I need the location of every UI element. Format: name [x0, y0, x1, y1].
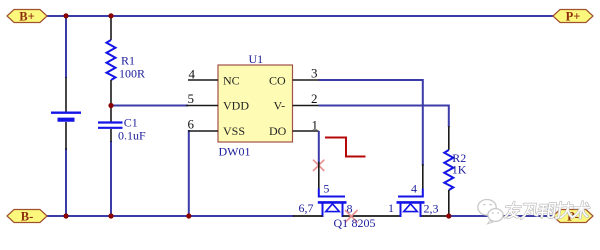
- wire B- rail to Q1 pin 6,7 black segment: [293, 215, 323, 217]
- pin 5 VDD: [186, 91, 249, 113]
- pin 6 VSS: [188, 117, 246, 139]
- svg-text:NC: NC: [223, 73, 240, 87]
- port B+: [7, 10, 47, 24]
- label Q1: [334, 216, 349, 230]
- svg-text:U1: U1: [249, 52, 264, 66]
- wire between Q1 FETs black segment: [343, 215, 401, 217]
- wire bottom rail B- segment: [46, 215, 294, 217]
- svg-text:DO: DO: [269, 124, 287, 138]
- wire DO to Q1 left gate: [318, 131, 320, 164]
- wire bottom rail P- segment: [449, 215, 554, 217]
- svg-text:VSS: VSS: [223, 124, 245, 138]
- label R2: [452, 151, 466, 165]
- svg-text:R1: R1: [121, 53, 135, 67]
- port B-: [7, 210, 47, 224]
- wire Q1 pin 2,3 to node black segment: [421, 215, 449, 217]
- svg-text:Q1: Q1: [334, 216, 349, 230]
- svg-text:VDD: VDD: [223, 99, 249, 113]
- junction rail C1 node: [108, 213, 113, 218]
- label 0.1uF: [118, 129, 146, 143]
- svg-text:DW01: DW01: [219, 144, 251, 158]
- label 8205: [352, 216, 376, 230]
- svg-text:5: 5: [323, 182, 329, 196]
- transistor Q1 left gate pin: [318, 162, 320, 189]
- wire V- to R2: [319, 106, 449, 128]
- pin number 8 Q1: [347, 201, 353, 215]
- capacitor C1: [98, 106, 123, 142]
- svg-text:5: 5: [188, 91, 195, 106]
- no-ERC marker X on DO wire: [313, 160, 324, 171]
- svg-text:C1: C1: [124, 115, 138, 129]
- port P+: [553, 10, 593, 24]
- svg-text:3: 3: [311, 66, 318, 81]
- svg-text:4: 4: [411, 182, 417, 196]
- junction rail R2 node: [446, 213, 451, 218]
- waveform annotation: [325, 138, 366, 157]
- junction R1 C1 VDD node: [108, 103, 113, 108]
- svg-text:1K: 1K: [452, 163, 467, 177]
- battery: [51, 77, 81, 150]
- label 1K: [452, 163, 467, 177]
- pin 3 CO: [269, 66, 319, 88]
- transistor Q1 left FET: [318, 189, 347, 218]
- label U1: [249, 52, 264, 66]
- op-amp U1 body DW01: [218, 65, 293, 142]
- resistor R2: [444, 126, 453, 216]
- pin 4 NC: [188, 67, 240, 88]
- svg-text:6: 6: [188, 117, 195, 132]
- junction top R1 node: [108, 13, 113, 18]
- svg-text:1: 1: [388, 201, 394, 215]
- svg-text:V-: V-: [274, 99, 286, 113]
- svg-text:1: 1: [312, 118, 319, 133]
- junction rail VSS node: [186, 213, 191, 218]
- svg-text:6,7: 6,7: [299, 201, 314, 215]
- label R1: [121, 53, 135, 67]
- watermark text you fei xiang ji shu: [505, 202, 590, 219]
- pin 2 V-: [274, 91, 319, 113]
- port P-: [553, 210, 593, 224]
- svg-text:B+: B+: [19, 10, 34, 24]
- wire C1 branch vertical to rail: [110, 141, 112, 216]
- transistor Q1 right gate pin: [422, 164, 424, 189]
- svg-text:0.1uF: 0.1uF: [118, 129, 146, 143]
- label DW01: [219, 144, 251, 158]
- pin number 2,3 Q1: [424, 201, 439, 215]
- pin number 4 Q1: [411, 182, 417, 196]
- label C1: [124, 115, 138, 129]
- label 100R: [119, 67, 145, 81]
- svg-text:P+: P+: [566, 10, 581, 24]
- watermark wechat icon: [478, 200, 503, 224]
- pin number 6,7 Q1: [299, 201, 314, 215]
- wire battery branch vertical: [65, 16, 67, 216]
- svg-text:B-: B-: [21, 210, 34, 224]
- svg-text:2: 2: [311, 91, 318, 106]
- svg-text:100R: 100R: [119, 67, 145, 81]
- pin number 1 Q1: [388, 201, 394, 215]
- wire top rail B+ to P+: [47, 15, 553, 17]
- svg-text:4: 4: [189, 67, 196, 82]
- no-ERC marker X on Q1 pin 8: [345, 210, 358, 223]
- junction top battery node: [63, 13, 68, 18]
- wire VDD from node to pin 5: [111, 105, 188, 107]
- wire CO to Q1 right gate: [319, 80, 423, 166]
- pin number 5 Q1: [323, 182, 329, 196]
- svg-text:8205: 8205: [352, 216, 376, 230]
- svg-text:CO: CO: [269, 73, 286, 87]
- junction rail battery node: [63, 213, 68, 218]
- wire VSS pin 6 to bottom rail: [189, 131, 190, 216]
- pin 1 DO: [269, 118, 319, 139]
- resistor R1: [107, 16, 116, 106]
- svg-text:2,3: 2,3: [424, 201, 439, 215]
- transistor Q1 right FET: [397, 189, 425, 218]
